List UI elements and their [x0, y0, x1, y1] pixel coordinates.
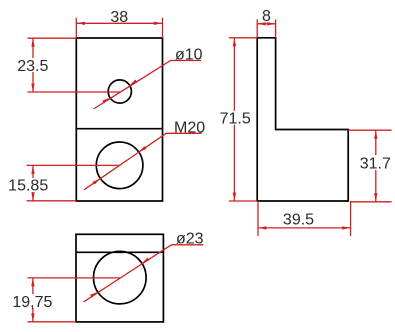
leader o23: arrowheads at circle [90, 258, 149, 298]
leader o10: leader line [94, 61, 202, 110]
dimension 31.7: value label [359, 155, 393, 173]
svg-text:15.85: 15.85 [8, 177, 48, 194]
dimension 23.5: extension and dimension lines [28, 38, 121, 92]
dimension 71.5: arrowheads [233, 38, 236, 200]
leader o23: leader line [84, 245, 204, 302]
bottom view wall edge line [76, 251, 163, 253]
svg-text:31.7: 31.7 [360, 156, 391, 173]
svg-text:38: 38 [110, 9, 128, 26]
dimension 8: arrowheads [258, 22, 276, 25]
dimension 39.5: arrowheads [258, 226, 350, 229]
svg-text:39.5: 39.5 [283, 212, 314, 229]
dimension 19,75: value label [12, 294, 53, 311]
front view outline (38 x 71.5 plate) [76, 38, 162, 201]
dimension 38: extension and dimension lines [76, 18, 162, 38]
svg-text:ø23: ø23 [176, 231, 204, 248]
dimension 8: extension and dimension lines [257, 19, 275, 37]
side view L-shape outline [257, 38, 348, 201]
hole circle o10 (front view) [108, 80, 131, 103]
front view step edge line [76, 128, 162, 130]
svg-text:19,75: 19,75 [12, 294, 52, 311]
svg-text:23.5: 23.5 [17, 58, 48, 75]
leader M20: leader line [84, 133, 202, 190]
dimension 19,75: extension and dimension lines [28, 278, 120, 322]
svg-text:8: 8 [262, 8, 271, 25]
dimension 39.5: extension and dimension lines [258, 201, 351, 236]
dimension 38: arrowheads [77, 22, 162, 25]
bottom view outline (38 x 39.5) [76, 234, 163, 322]
dimension 23.5: arrowheads [31, 39, 34, 92]
leader o10: arrowheads at circle [102, 80, 137, 104]
svg-text:71.5: 71.5 [220, 111, 251, 128]
leader M20: arrowheads at circle [93, 146, 147, 184]
hole circle M20 (front view) [96, 142, 143, 189]
dimension 15.85: arrowheads [31, 166, 34, 201]
dimension 71.5: extension and dimension lines [229, 38, 257, 201]
dimension 15.85: extension and dimension lines [27, 165, 120, 200]
dimension 23.5: value label [16, 58, 49, 75]
dimension 71.5: value label [219, 111, 252, 128]
hole circle o23 (bottom view) [94, 251, 147, 304]
dimension 15.85: value label [6, 177, 51, 194]
dimension 31.7: arrowheads [374, 131, 377, 202]
dimension 31.7: extension and dimension lines [348, 130, 391, 202]
svg-text:M20: M20 [174, 120, 205, 137]
svg-text:ø10: ø10 [175, 47, 203, 64]
dimension 19,75: arrowheads [31, 278, 34, 321]
